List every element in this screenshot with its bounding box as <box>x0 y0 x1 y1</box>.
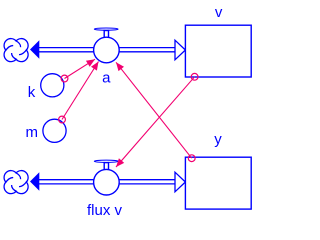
wire pipe top right <box>119 48 175 52</box>
parameter k <box>41 74 64 97</box>
connector k to valve a <box>65 59 96 78</box>
parameter m <box>43 119 66 142</box>
stock y <box>185 157 251 209</box>
wire pipe bottom right <box>119 180 175 184</box>
connector y to valve a <box>116 62 192 158</box>
valve flux v <box>94 160 120 195</box>
svg-text:flux v: flux v <box>87 202 123 219</box>
flow arrow hollow into stock v <box>175 40 185 60</box>
node y output port <box>188 155 195 162</box>
stock v <box>185 25 251 77</box>
connector v to valve flux v <box>116 77 195 167</box>
valve a <box>94 28 120 63</box>
cloud source top <box>4 39 28 62</box>
connector m to valve a <box>62 62 99 120</box>
svg-text:y: y <box>214 131 222 148</box>
svg-text:a: a <box>102 70 111 87</box>
node v output port <box>191 73 198 80</box>
svg-text:k: k <box>28 84 36 101</box>
svg-text:v: v <box>215 4 223 21</box>
wire pipe top left <box>39 48 95 52</box>
flow arrow solid into top cloud <box>30 40 39 59</box>
wire pipe bottom left <box>39 180 95 184</box>
flow arrow solid into bottom cloud <box>30 172 39 191</box>
cloud sink bottom <box>4 171 28 194</box>
node m output port <box>59 116 66 123</box>
flow arrow hollow into stock y <box>175 172 185 192</box>
node k output port <box>61 75 68 82</box>
svg-text:m: m <box>26 124 39 141</box>
